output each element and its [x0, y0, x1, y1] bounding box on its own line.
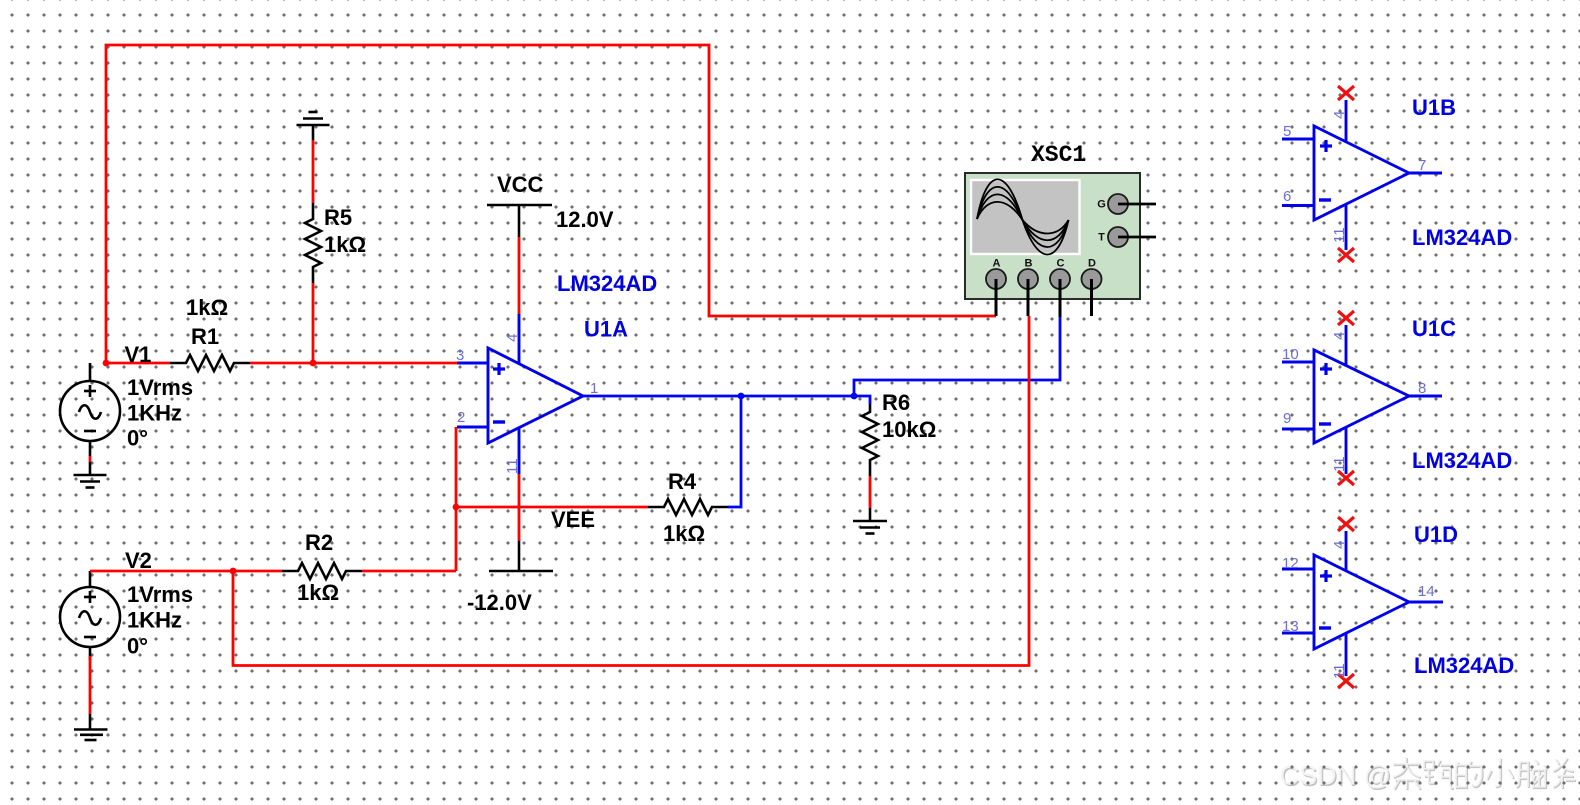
- junction node V1: [103, 360, 110, 367]
- wire VCC to pin4: [518, 237, 521, 314]
- wire V2 to R2: [90, 570, 282, 573]
- svg-text:XSC1: XSC1: [1031, 142, 1086, 168]
- svg-text:4: 4: [1331, 111, 1348, 119]
- resistor R4: [648, 499, 728, 515]
- svg-text:R2: R2: [305, 530, 333, 555]
- svg-text:12.0V: 12.0V: [556, 207, 614, 232]
- wire V1 node to R1: [106, 362, 170, 365]
- watermark glyph xiao: [1488, 759, 1514, 787]
- resistor R2: [282, 563, 362, 579]
- wire pin11 to VEE: [518, 474, 521, 541]
- svg-text:4: 4: [1331, 332, 1348, 340]
- svg-text:U1A: U1A: [584, 317, 628, 342]
- scope waveform traces: [977, 179, 1069, 254]
- svg-text:11: 11: [1331, 227, 1348, 243]
- watermark CSDN @ text: [1280, 757, 1576, 792]
- svg-text:-12.0V: -12.0V: [467, 590, 532, 615]
- svg-text:R5: R5: [324, 205, 352, 230]
- svg-text:R6: R6: [882, 390, 910, 415]
- terminal G: [1108, 194, 1128, 214]
- svg-text:0°: 0°: [127, 634, 148, 659]
- wire V2 to ground (red part): [89, 656, 92, 714]
- svg-text:11: 11: [504, 458, 521, 474]
- watermark glyph ben: [1394, 758, 1421, 790]
- junction output/R4: [738, 393, 745, 400]
- power VCC symbol: [487, 205, 552, 237]
- no-connect X pin4 U1B: [1338, 86, 1354, 100]
- svg-text:1kΩ: 1kΩ: [324, 232, 366, 257]
- svg-text:LM324AD: LM324AD: [557, 271, 657, 296]
- svg-text:LM324AD: LM324AD: [1412, 225, 1512, 250]
- ground below V1: [74, 462, 107, 488]
- ground (inverted) above R5: [297, 112, 330, 140]
- junction pin2 node: [453, 504, 460, 511]
- svg-text:7: 7: [1418, 157, 1426, 174]
- svg-text:U1C: U1C: [1412, 316, 1456, 341]
- svg-text:LM324AD: LM324AD: [1412, 448, 1512, 473]
- op-amp U1B: [1282, 100, 1442, 250]
- svg-text:4: 4: [504, 334, 521, 342]
- wire R5 to node: [312, 283, 315, 363]
- svg-text:14: 14: [1418, 583, 1435, 600]
- svg-text:LM324AD: LM324AD: [1414, 653, 1514, 678]
- wire V2 node to scope B: [233, 316, 1029, 666]
- svg-text:D: D: [1088, 258, 1096, 270]
- svg-text:B: B: [1025, 258, 1033, 270]
- svg-text:1Vrms: 1Vrms: [127, 582, 193, 607]
- terminal C: [1050, 269, 1070, 289]
- terminal B: [1018, 269, 1038, 289]
- svg-text:T: T: [1098, 232, 1105, 244]
- svg-text:3: 3: [456, 347, 464, 364]
- wire output net (blue): [583, 396, 870, 404]
- svg-text:VEE: VEE: [551, 507, 595, 532]
- svg-text:4: 4: [1331, 541, 1348, 549]
- wire R6 to ground (red): [869, 476, 872, 508]
- watermark glyph nao: [1517, 761, 1547, 788]
- svg-text:5: 5: [1283, 123, 1291, 140]
- no-connect X pin11 U1D: [1338, 674, 1354, 688]
- svg-text:V1: V1: [125, 342, 152, 367]
- svg-text:R4: R4: [668, 469, 697, 494]
- oscilloscope XSC1 body: [965, 173, 1140, 299]
- junction output/scope-C: [851, 393, 858, 400]
- svg-text:U1B: U1B: [1412, 95, 1456, 120]
- svg-text:1KHz: 1KHz: [127, 608, 182, 633]
- svg-text:V2: V2: [125, 548, 152, 573]
- svg-text:A: A: [993, 258, 1001, 270]
- op-amp U1A: [457, 314, 583, 474]
- svg-text:13: 13: [1282, 618, 1299, 635]
- op-amp U1D: [1282, 531, 1443, 676]
- svg-text:11: 11: [1331, 663, 1348, 679]
- resistor R5: [305, 203, 321, 283]
- no-connect X pin11 U1B: [1338, 248, 1354, 262]
- junction V2 node: [230, 568, 237, 575]
- wire R2 to pin2 vertical: [362, 570, 456, 573]
- source V1: [60, 363, 120, 456]
- resistor R6: [862, 404, 878, 476]
- svg-text:C: C: [1057, 258, 1065, 270]
- svg-text:R1: R1: [191, 324, 219, 349]
- wire net V1 loop to scope A: [106, 45, 996, 363]
- svg-text:11: 11: [1331, 456, 1348, 472]
- svg-text:G: G: [1097, 199, 1106, 211]
- wire V1 to ground (red part): [89, 456, 92, 462]
- wire pin2 feedback vertical: [455, 427, 458, 571]
- svg-text:1: 1: [590, 380, 598, 397]
- watermark glyph de: [1457, 762, 1483, 788]
- wire R1 to op-amp pin3: [250, 362, 457, 365]
- svg-text:10kΩ: 10kΩ: [882, 417, 936, 442]
- svg-text:9: 9: [1283, 410, 1291, 427]
- terminal D: [1082, 269, 1102, 289]
- terminal T: [1108, 227, 1128, 247]
- watermark glyph pao: [1425, 761, 1454, 789]
- power VEE symbol: [489, 541, 553, 571]
- svg-text:U1D: U1D: [1414, 522, 1458, 547]
- wire ground to R5: [312, 140, 315, 203]
- no-connect X pin11 U1C: [1338, 471, 1354, 485]
- no-connect X pin4 U1D: [1338, 517, 1354, 531]
- wire R4 to output node (blue): [728, 396, 741, 507]
- svg-text:0°: 0°: [127, 426, 148, 451]
- op-amp U1C: [1282, 325, 1442, 474]
- svg-text:1Vrms: 1Vrms: [127, 375, 193, 400]
- svg-text:1kΩ: 1kΩ: [297, 580, 339, 605]
- svg-text:1KHz: 1KHz: [127, 401, 182, 426]
- watermark glyph fu: [1554, 759, 1576, 789]
- junction node R5/R1: [310, 360, 317, 367]
- resistor R1: [170, 355, 250, 371]
- svg-text:VCC: VCC: [497, 172, 544, 197]
- svg-text:10: 10: [1282, 346, 1299, 363]
- terminal A: [986, 269, 1006, 289]
- svg-text:6: 6: [1283, 188, 1291, 205]
- wire output to scope C (blue): [854, 317, 1060, 396]
- svg-text:1kΩ: 1kΩ: [186, 295, 228, 320]
- no-connect X pin4 U1C: [1338, 311, 1354, 325]
- svg-text:1kΩ: 1kΩ: [663, 521, 705, 546]
- source V2: [60, 571, 120, 660]
- wire pin2 node to R4: [456, 506, 648, 509]
- svg-text:12: 12: [1282, 555, 1299, 572]
- svg-text:8: 8: [1418, 380, 1426, 397]
- ground below V2: [74, 714, 108, 740]
- svg-text:2: 2: [457, 409, 465, 426]
- ground below R6: [853, 508, 887, 534]
- oscilloscope screen: [971, 180, 1080, 254]
